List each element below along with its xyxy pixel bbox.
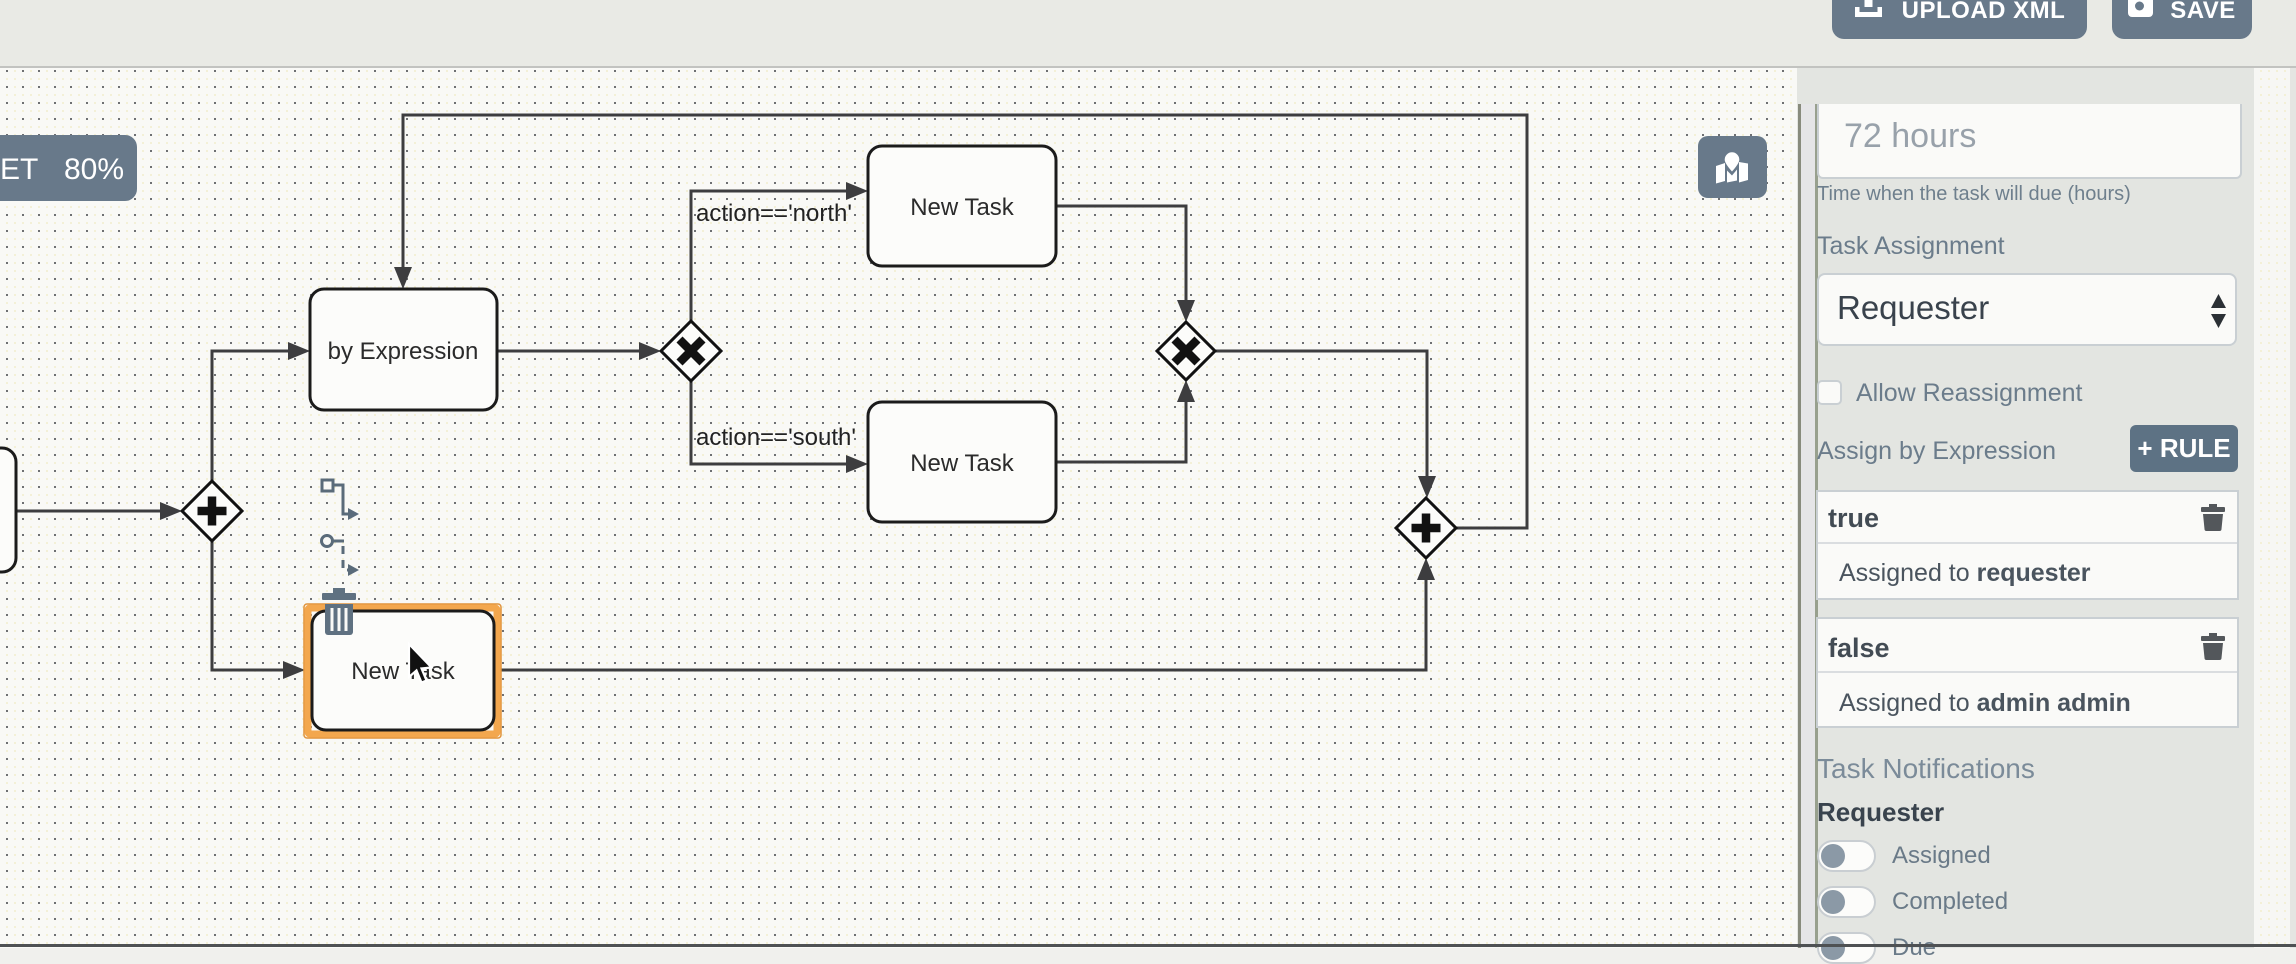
wire G2 north to task B — [691, 191, 847, 321]
zoom badge ET 80% — [0, 135, 137, 201]
start task (cut off at left) — [0, 448, 16, 572]
map button — [1698, 136, 1767, 198]
edge hint icon 1 (solid) — [322, 480, 349, 514]
wire G3 to G4 — [1215, 351, 1427, 477]
bottom dark line — [0, 944, 2296, 947]
task by Expression — [310, 289, 497, 410]
edge hint icon 2 (dashed) — [322, 536, 350, 571]
gateway G2 exclusive — [661, 321, 721, 381]
arrowhead into task B — [846, 182, 868, 200]
right panel — [1797, 68, 2262, 948]
select Requester — [1817, 273, 2237, 346]
mouse cursor — [409, 644, 432, 683]
wire selected task to G4 — [500, 579, 1426, 670]
arrowhead into G3 top (down) — [1177, 300, 1195, 322]
Task Notifications — [1817, 753, 2035, 785]
task New Task south — [868, 402, 1056, 522]
toggle Completed — [1817, 886, 1876, 918]
arrowhead into G3 bottom (up) — [1177, 380, 1195, 402]
Requester bold — [1817, 797, 1944, 828]
wire G1 to selected task — [212, 541, 284, 670]
wire G2 south to task C — [691, 381, 847, 464]
selection frame of selected task — [304, 604, 501, 738]
wire task C to G3 — [1056, 401, 1186, 462]
wire task B to G3 — [1056, 206, 1186, 301]
svg-text:80%: 80% — [64, 153, 124, 186]
svg-text:action=='south': action=='south' — [696, 424, 856, 451]
help text — [1817, 183, 2131, 206]
wire G1 to by-Expression — [212, 351, 289, 481]
gateway G4 parallel — [1396, 498, 1456, 558]
arrowhead into by-Expression left — [288, 342, 310, 360]
rule false — [1816, 617, 2239, 728]
wire by-Expression to G2 — [497, 350, 640, 353]
task New Task selected — [312, 611, 494, 730]
arrowhead into G2 — [639, 342, 661, 360]
Task Assignment label — [1817, 232, 2005, 261]
wire start to G1 — [16, 510, 161, 513]
gateway G3 exclusive — [1157, 322, 1215, 380]
task New Task north — [868, 146, 1056, 266]
svg-text:action=='north': action=='north' — [696, 200, 852, 227]
svg-text:ET: ET — [0, 153, 38, 186]
svg-text:New Task: New Task — [910, 450, 1015, 477]
toggle Assigned — [1817, 840, 1876, 872]
wire G4 loop back to by-Expression — [403, 115, 1527, 528]
arrowhead into task C — [846, 455, 868, 473]
rule true — [1816, 490, 2239, 600]
gateway G1 parallel — [182, 481, 242, 541]
UPLOAD XML button — [1832, 0, 2087, 39]
canvas — [0, 68, 1797, 948]
arrowhead into G4 top (down) — [1418, 476, 1436, 498]
svg-text:New Task: New Task — [351, 658, 456, 685]
arrowhead into by-Expression top (down) — [394, 267, 412, 289]
+ RULE button — [2130, 425, 2238, 472]
arrowhead into G4 bottom (up) — [1417, 558, 1435, 580]
trash icon above selected task — [322, 588, 356, 635]
SAVE button — [2112, 0, 2252, 39]
svg-text:New Task: New Task — [910, 194, 1015, 221]
top bar — [0, 0, 2296, 68]
svg-text:by Expression: by Expression — [328, 338, 479, 365]
toggle Due (cut off) — [1817, 932, 1876, 964]
arrowhead into G1 — [160, 502, 182, 520]
Assign by Expression — [1817, 437, 2056, 466]
due-in input — [1817, 104, 2242, 179]
checkbox Allow Reassignment — [1817, 380, 1842, 405]
arrowhead into selected task left — [283, 661, 305, 679]
